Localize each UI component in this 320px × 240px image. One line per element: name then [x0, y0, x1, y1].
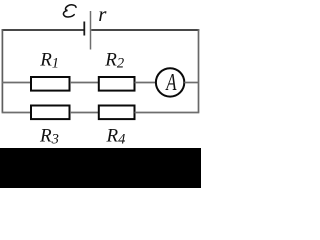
wire: R2 to ammeter: [135, 82, 157, 84]
wire: top horizontal right segment (battery to right corner): [91, 29, 199, 31]
wire: R3 to R4: [70, 112, 99, 114]
wire: ammeter to right bus: [184, 82, 198, 84]
wire: middle row, left bus to R1: [2, 82, 31, 84]
ammeter U1 circle: [156, 68, 184, 96]
black censor bar: [0, 148, 201, 188]
wire: right vertical bus: [198, 29, 200, 112]
label EMF script-E: [63, 5, 76, 17]
battery EMF: short plate (negative): [83, 22, 85, 36]
resistor R2: [99, 77, 135, 91]
resistor R3: [31, 106, 70, 120]
svg-text:A: A: [165, 71, 177, 96]
wire: top horizontal left segment (to battery): [2, 29, 84, 31]
resistor R1: [31, 77, 70, 91]
wire: R1 to R2: [70, 82, 99, 84]
battery EMF: long plate (positive): [90, 11, 92, 50]
wire: left vertical bus: [1, 29, 3, 112]
svg-text:r: r: [98, 2, 107, 26]
wire: bottom row, left bus to R3: [2, 112, 31, 114]
wire: R4 to right bus: [135, 112, 200, 114]
resistor R4: [99, 106, 135, 120]
